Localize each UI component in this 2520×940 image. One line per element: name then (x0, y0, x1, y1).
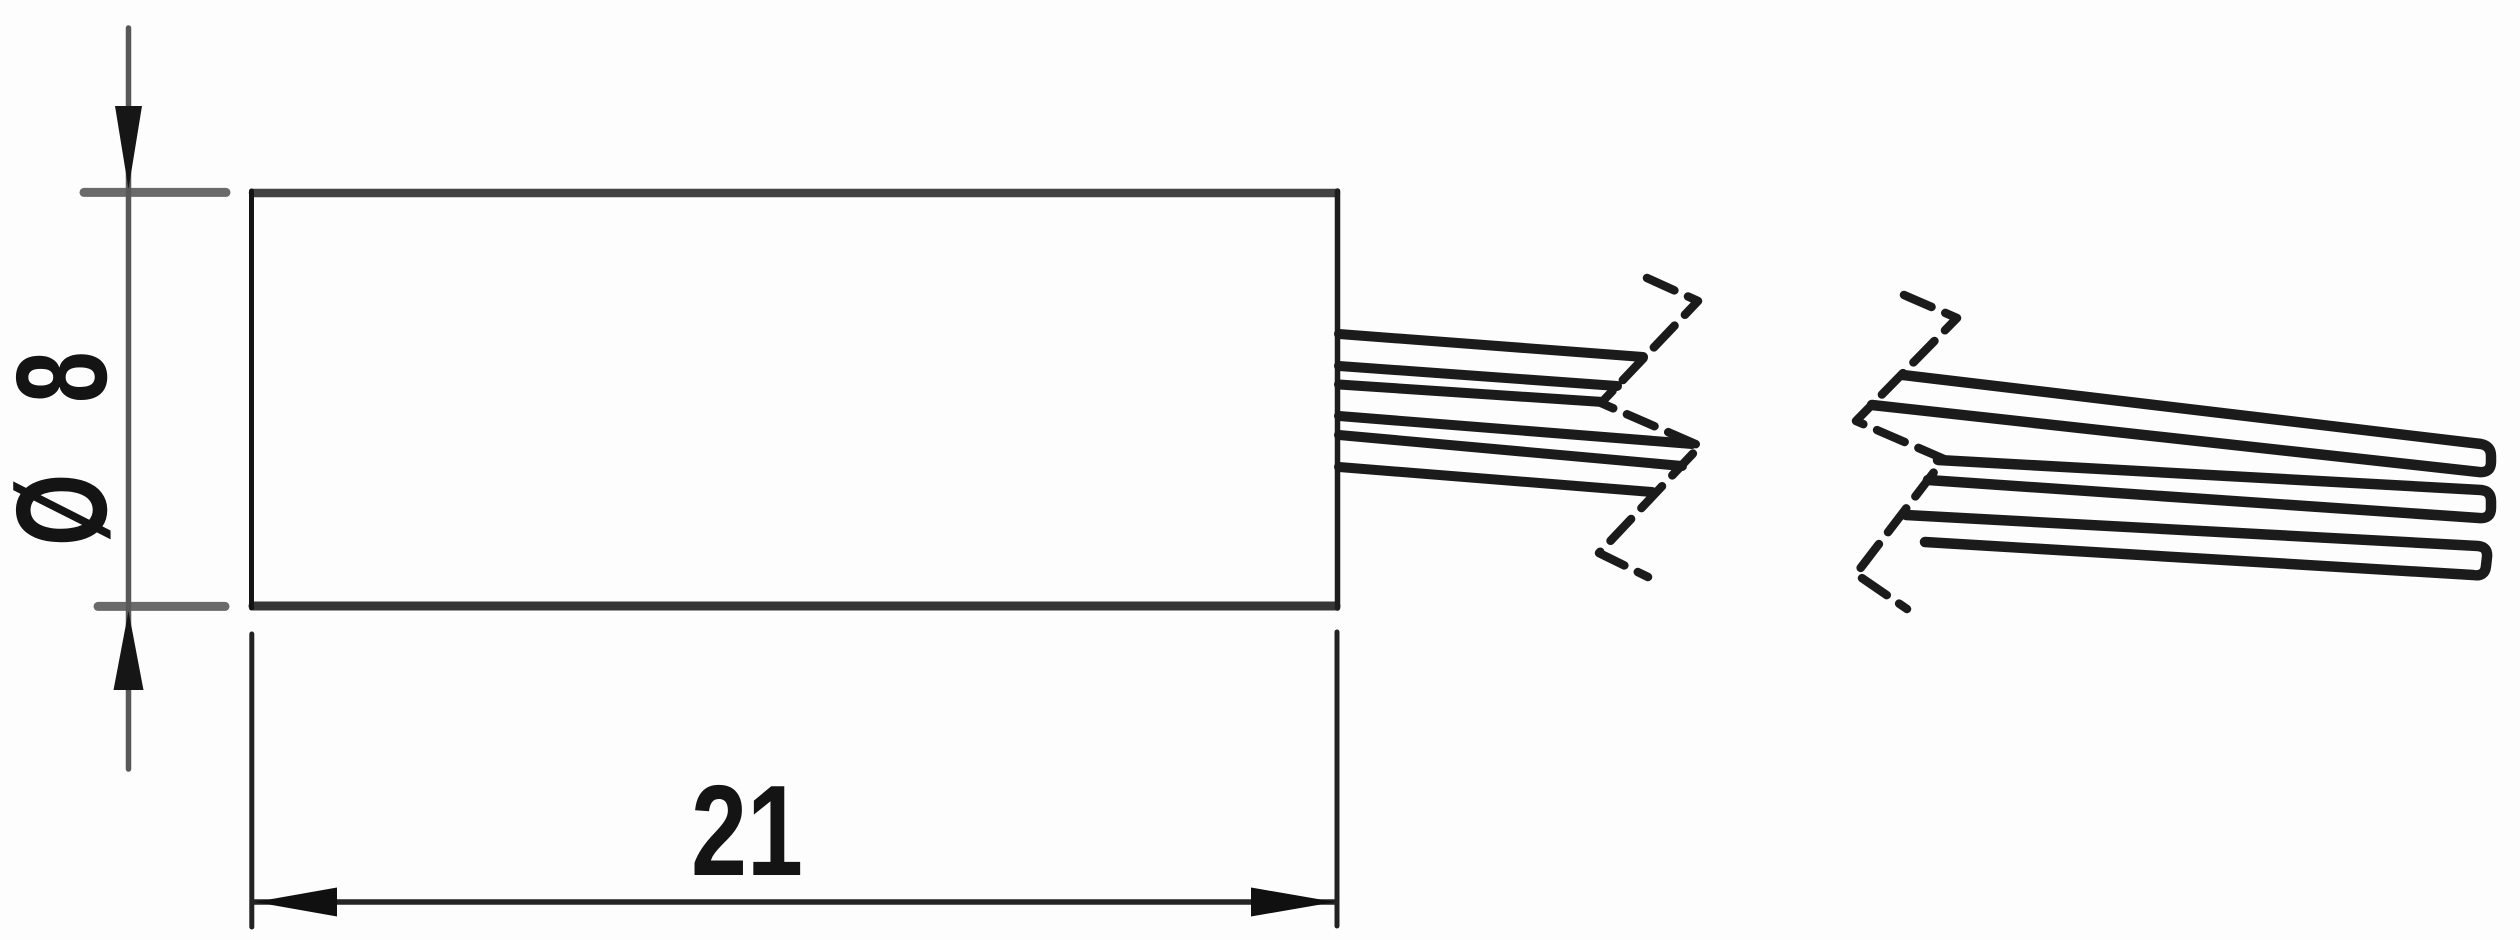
module body top edge (253, 189, 1336, 198)
length dimension right extension line (1335, 632, 1340, 926)
diameter dimension upper arrowhead (115, 106, 142, 189)
diameter dimension label "Ø 8" (rotated) (0, 474, 134, 546)
wire 2 outline (right segment) (1928, 460, 2491, 518)
module body left edge (249, 191, 254, 608)
wire 1 upper outline (left segment) (1339, 334, 1643, 357)
break line right (dashed zigzag) (1856, 295, 1957, 609)
wire 3 upper outline (left segment) (1339, 435, 1682, 466)
length dimension left arrowhead (255, 888, 337, 917)
wire 2 upper outline (left segment) (1339, 385, 1603, 403)
svg-text:21: 21 (691, 758, 803, 903)
module body right edge (1335, 191, 1341, 608)
module body bottom edge (253, 602, 1336, 611)
diameter dimension lower arrowhead (114, 611, 144, 690)
length dimension left extension line (249, 634, 254, 927)
wire 2 lower outline (left segment) (1339, 416, 1692, 444)
diameter dimension top extension line (84, 188, 226, 197)
wire 3 outline (right segment) (1906, 515, 2487, 575)
svg-text:Ø: Ø (0, 474, 134, 546)
diameter dimension line (126, 28, 132, 769)
wire 1 outline (right segment) (1872, 375, 2491, 472)
wire 1 lower outline (left segment) (1339, 366, 1617, 386)
break line left (dashed zigzag) (1599, 278, 1700, 577)
length dimension right arrowhead (1251, 888, 1335, 917)
length dimension line (253, 899, 1336, 905)
svg-text:8: 8 (0, 351, 134, 403)
diameter dimension bottom extension line (98, 602, 225, 611)
wire 3 lower outline (left segment) (1339, 467, 1652, 492)
